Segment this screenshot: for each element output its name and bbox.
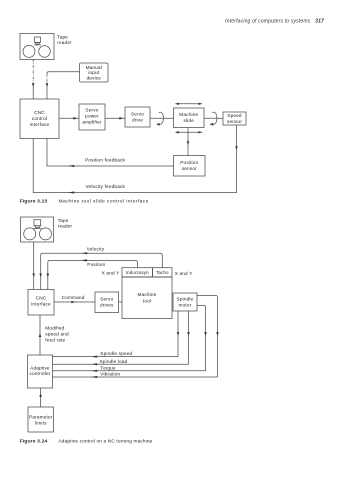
svg-text:Inductosyn: Inductosyn: [126, 270, 149, 275]
svg-text:speed and: speed and: [45, 332, 69, 337]
svg-text:feed rate: feed rate: [45, 338, 65, 343]
svg-text:motor: motor: [179, 302, 192, 307]
svg-text:control: control: [32, 116, 47, 121]
svg-text:Figure 3.24: Figure 3.24: [20, 438, 48, 444]
svg-text:controller: controller: [29, 371, 50, 376]
svg-text:Machine: Machine: [179, 112, 198, 117]
svg-text:Spindle speed: Spindle speed: [100, 351, 132, 356]
svg-text:sensor: sensor: [227, 119, 242, 124]
svg-text:reader: reader: [57, 40, 72, 45]
svg-text:Speed: Speed: [227, 113, 242, 118]
svg-text:slide: slide: [184, 118, 195, 123]
svg-text:Vibration: Vibration: [100, 372, 120, 377]
svg-text:drive: drive: [132, 117, 143, 122]
svg-text:amplifier: amplifier: [82, 119, 102, 124]
svg-text:power: power: [85, 113, 99, 118]
svg-text:device: device: [86, 75, 101, 80]
svg-text:Velocity: Velocity: [87, 246, 105, 251]
svg-text:Tacho: Tacho: [156, 270, 169, 275]
svg-text:Adaptive: Adaptive: [30, 365, 50, 370]
svg-text:Tape: Tape: [58, 218, 69, 223]
svg-text:Position: Position: [180, 160, 198, 165]
svg-text:reader: reader: [58, 223, 73, 228]
svg-text:Figure 3.23: Figure 3.23: [20, 198, 48, 204]
svg-text:Torque: Torque: [100, 366, 116, 371]
svg-text:limits: limits: [35, 420, 47, 425]
svg-text:Command: Command: [62, 295, 85, 300]
svg-text:Parameter: Parameter: [29, 414, 53, 419]
svg-text:Interfacing of computers to sy: Interfacing of computers to systems 317: [225, 19, 324, 25]
svg-text:Machine: Machine: [138, 292, 157, 297]
svg-text:Servo: Servo: [85, 107, 98, 112]
svg-text:Position feedback: Position feedback: [85, 158, 126, 163]
svg-text:sensor: sensor: [182, 166, 197, 171]
svg-text:Machine tool slide control int: Machine tool slide control interface: [59, 198, 149, 203]
svg-text:Servo: Servo: [100, 297, 113, 302]
svg-text:Spindle: Spindle: [177, 296, 194, 301]
svg-text:Spindle load: Spindle load: [100, 359, 128, 364]
svg-text:interface: interface: [30, 122, 50, 127]
svg-text:Velocity feedback: Velocity feedback: [86, 184, 126, 189]
svg-text:Modified: Modified: [45, 326, 64, 331]
svg-text:Servo: Servo: [131, 111, 144, 116]
svg-text:Adaptive control on a NC turni: Adaptive control on a NC turning machine: [59, 438, 153, 443]
svg-text:Position: Position: [87, 262, 105, 267]
svg-text:Tape: Tape: [57, 35, 68, 40]
svg-text:X and Y: X and Y: [175, 271, 194, 276]
svg-text:interface: interface: [31, 302, 51, 307]
svg-text:tool: tool: [143, 298, 151, 303]
svg-text:CNC: CNC: [34, 110, 45, 115]
svg-text:drives: drives: [100, 303, 114, 308]
svg-text:X and Y: X and Y: [102, 270, 121, 275]
svg-text:CNC: CNC: [36, 296, 47, 301]
